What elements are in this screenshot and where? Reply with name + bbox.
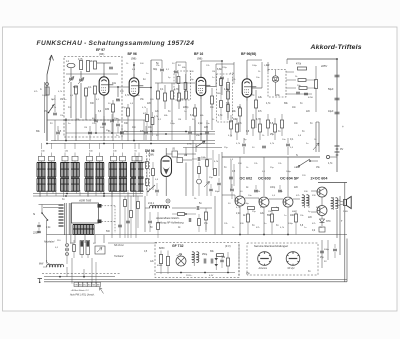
svg-text:50p: 50p	[73, 86, 78, 89]
svg-text:250µ: 250µ	[202, 254, 208, 256]
svg-text:1,2k: 1,2k	[224, 88, 229, 91]
svg-text:(96): (96)	[99, 52, 104, 56]
svg-text:Netzkabel: Netzkabel	[44, 241, 55, 244]
svg-text:NTC: NTC	[326, 221, 331, 223]
svg-text:BF 96(98): BF 96(98)	[241, 52, 256, 56]
svg-text:180: 180	[105, 108, 110, 111]
svg-text:(9 V): (9 V)	[225, 244, 231, 248]
svg-text:+9V/bei Netztr. 2:1: +9V/bei Netztr. 2:1	[71, 289, 90, 292]
svg-text:220V∼: 220V∼	[32, 232, 42, 235]
svg-text:100p: 100p	[270, 187, 276, 189]
svg-text:1M: 1M	[184, 155, 187, 157]
svg-text:25µ: 25µ	[246, 273, 251, 275]
svg-text:BF 96: BF 96	[128, 52, 137, 56]
svg-text:2×OC 604: 2×OC 604	[311, 177, 329, 181]
svg-text:100p: 100p	[170, 123, 176, 125]
svg-text:BF 16: BF 16	[194, 52, 203, 56]
svg-text:50µF: 50µF	[328, 88, 334, 91]
svg-text:Auto PW L KOL Umsch.: Auto PW L KOL Umsch.	[69, 294, 95, 297]
svg-text:150: 150	[237, 106, 242, 109]
svg-text:1M: 1M	[212, 71, 215, 73]
svg-text:4,7k: 4,7k	[174, 88, 179, 91]
svg-text:MW: MW	[39, 263, 44, 266]
svg-text:10n: 10n	[112, 82, 117, 85]
svg-text:1M: 1M	[76, 119, 79, 121]
svg-text:+: +	[342, 125, 344, 129]
svg-text:KW: KW	[75, 285, 78, 287]
svg-text:500µ: 500µ	[324, 249, 330, 251]
svg-text:B250: B250	[159, 248, 165, 250]
svg-text:4700: 4700	[308, 97, 314, 99]
svg-text:(98): (98)	[131, 57, 136, 61]
svg-text:100p: 100p	[288, 223, 294, 225]
svg-text:0,1: 0,1	[88, 86, 92, 89]
svg-text:NF 2pl.: NF 2pl.	[288, 268, 296, 270]
svg-text:4,7k: 4,7k	[256, 118, 261, 121]
svg-text:FUNKSCHAU - Schaltungssammlung: FUNKSCHAU - Schaltungssammlung 1957/24	[37, 40, 195, 47]
svg-text:10µF: 10µF	[328, 110, 334, 113]
svg-text:stellung NF-Aufhebung: stellung NF-Aufhebung	[157, 221, 184, 225]
svg-text:220p: 220p	[222, 67, 228, 69]
svg-text:600Ω: 600Ω	[157, 265, 163, 267]
svg-text:1M: 1M	[116, 99, 119, 101]
svg-text:2×0,1: 2×0,1	[148, 202, 155, 205]
svg-text:100p: 100p	[244, 203, 250, 205]
svg-text:100p: 100p	[42, 95, 48, 97]
svg-text:425V: 425V	[321, 64, 327, 68]
svg-text:OC 604 SP: OC 604 SP	[280, 177, 299, 181]
svg-text:(98): (98)	[197, 57, 202, 61]
svg-text:30p: 30p	[153, 68, 158, 71]
svg-text:DM 96: DM 96	[145, 149, 155, 153]
svg-text:2,5Ω: 2,5Ω	[343, 211, 348, 213]
svg-text:Tonband: Tonband	[114, 255, 124, 258]
svg-text:GF T32: GF T32	[172, 244, 184, 248]
svg-text:Service-Steckverbindungen: Service-Steckverbindungen	[254, 244, 289, 248]
svg-text:1M: 1M	[60, 99, 63, 101]
svg-text:S: S	[296, 153, 298, 157]
svg-text:470k: 470k	[296, 64, 302, 66]
svg-text:25µ: 25µ	[320, 257, 325, 259]
svg-text:220V∼: 220V∼	[186, 275, 193, 277]
svg-text:1M: 1M	[84, 127, 87, 129]
svg-text:Akkord-Triftels: Akkord-Triftels	[310, 44, 362, 51]
svg-text:9V: 9V	[340, 147, 343, 151]
svg-text:Antenne: Antenne	[258, 267, 268, 270]
svg-text:(DM): (DM)	[148, 153, 154, 157]
svg-text:4,7k: 4,7k	[78, 58, 83, 61]
svg-text:1M: 1M	[222, 257, 225, 259]
svg-text:25µ: 25µ	[270, 133, 275, 136]
svg-text:100p: 100p	[286, 171, 292, 173]
svg-text:Anwendbare Gleich-: Anwendbare Gleich-	[155, 216, 180, 220]
svg-text:OC 603: OC 603	[258, 177, 271, 181]
svg-text:1M: 1M	[178, 119, 181, 121]
svg-text:6,3V: 6,3V	[209, 275, 214, 277]
svg-text:NF-Vorst.: NF-Vorst.	[114, 244, 124, 247]
svg-text:AÜR Tr85: AÜR Tr85	[78, 199, 92, 203]
svg-text:100p: 100p	[252, 65, 258, 67]
svg-text:OC 602: OC 602	[240, 177, 253, 181]
